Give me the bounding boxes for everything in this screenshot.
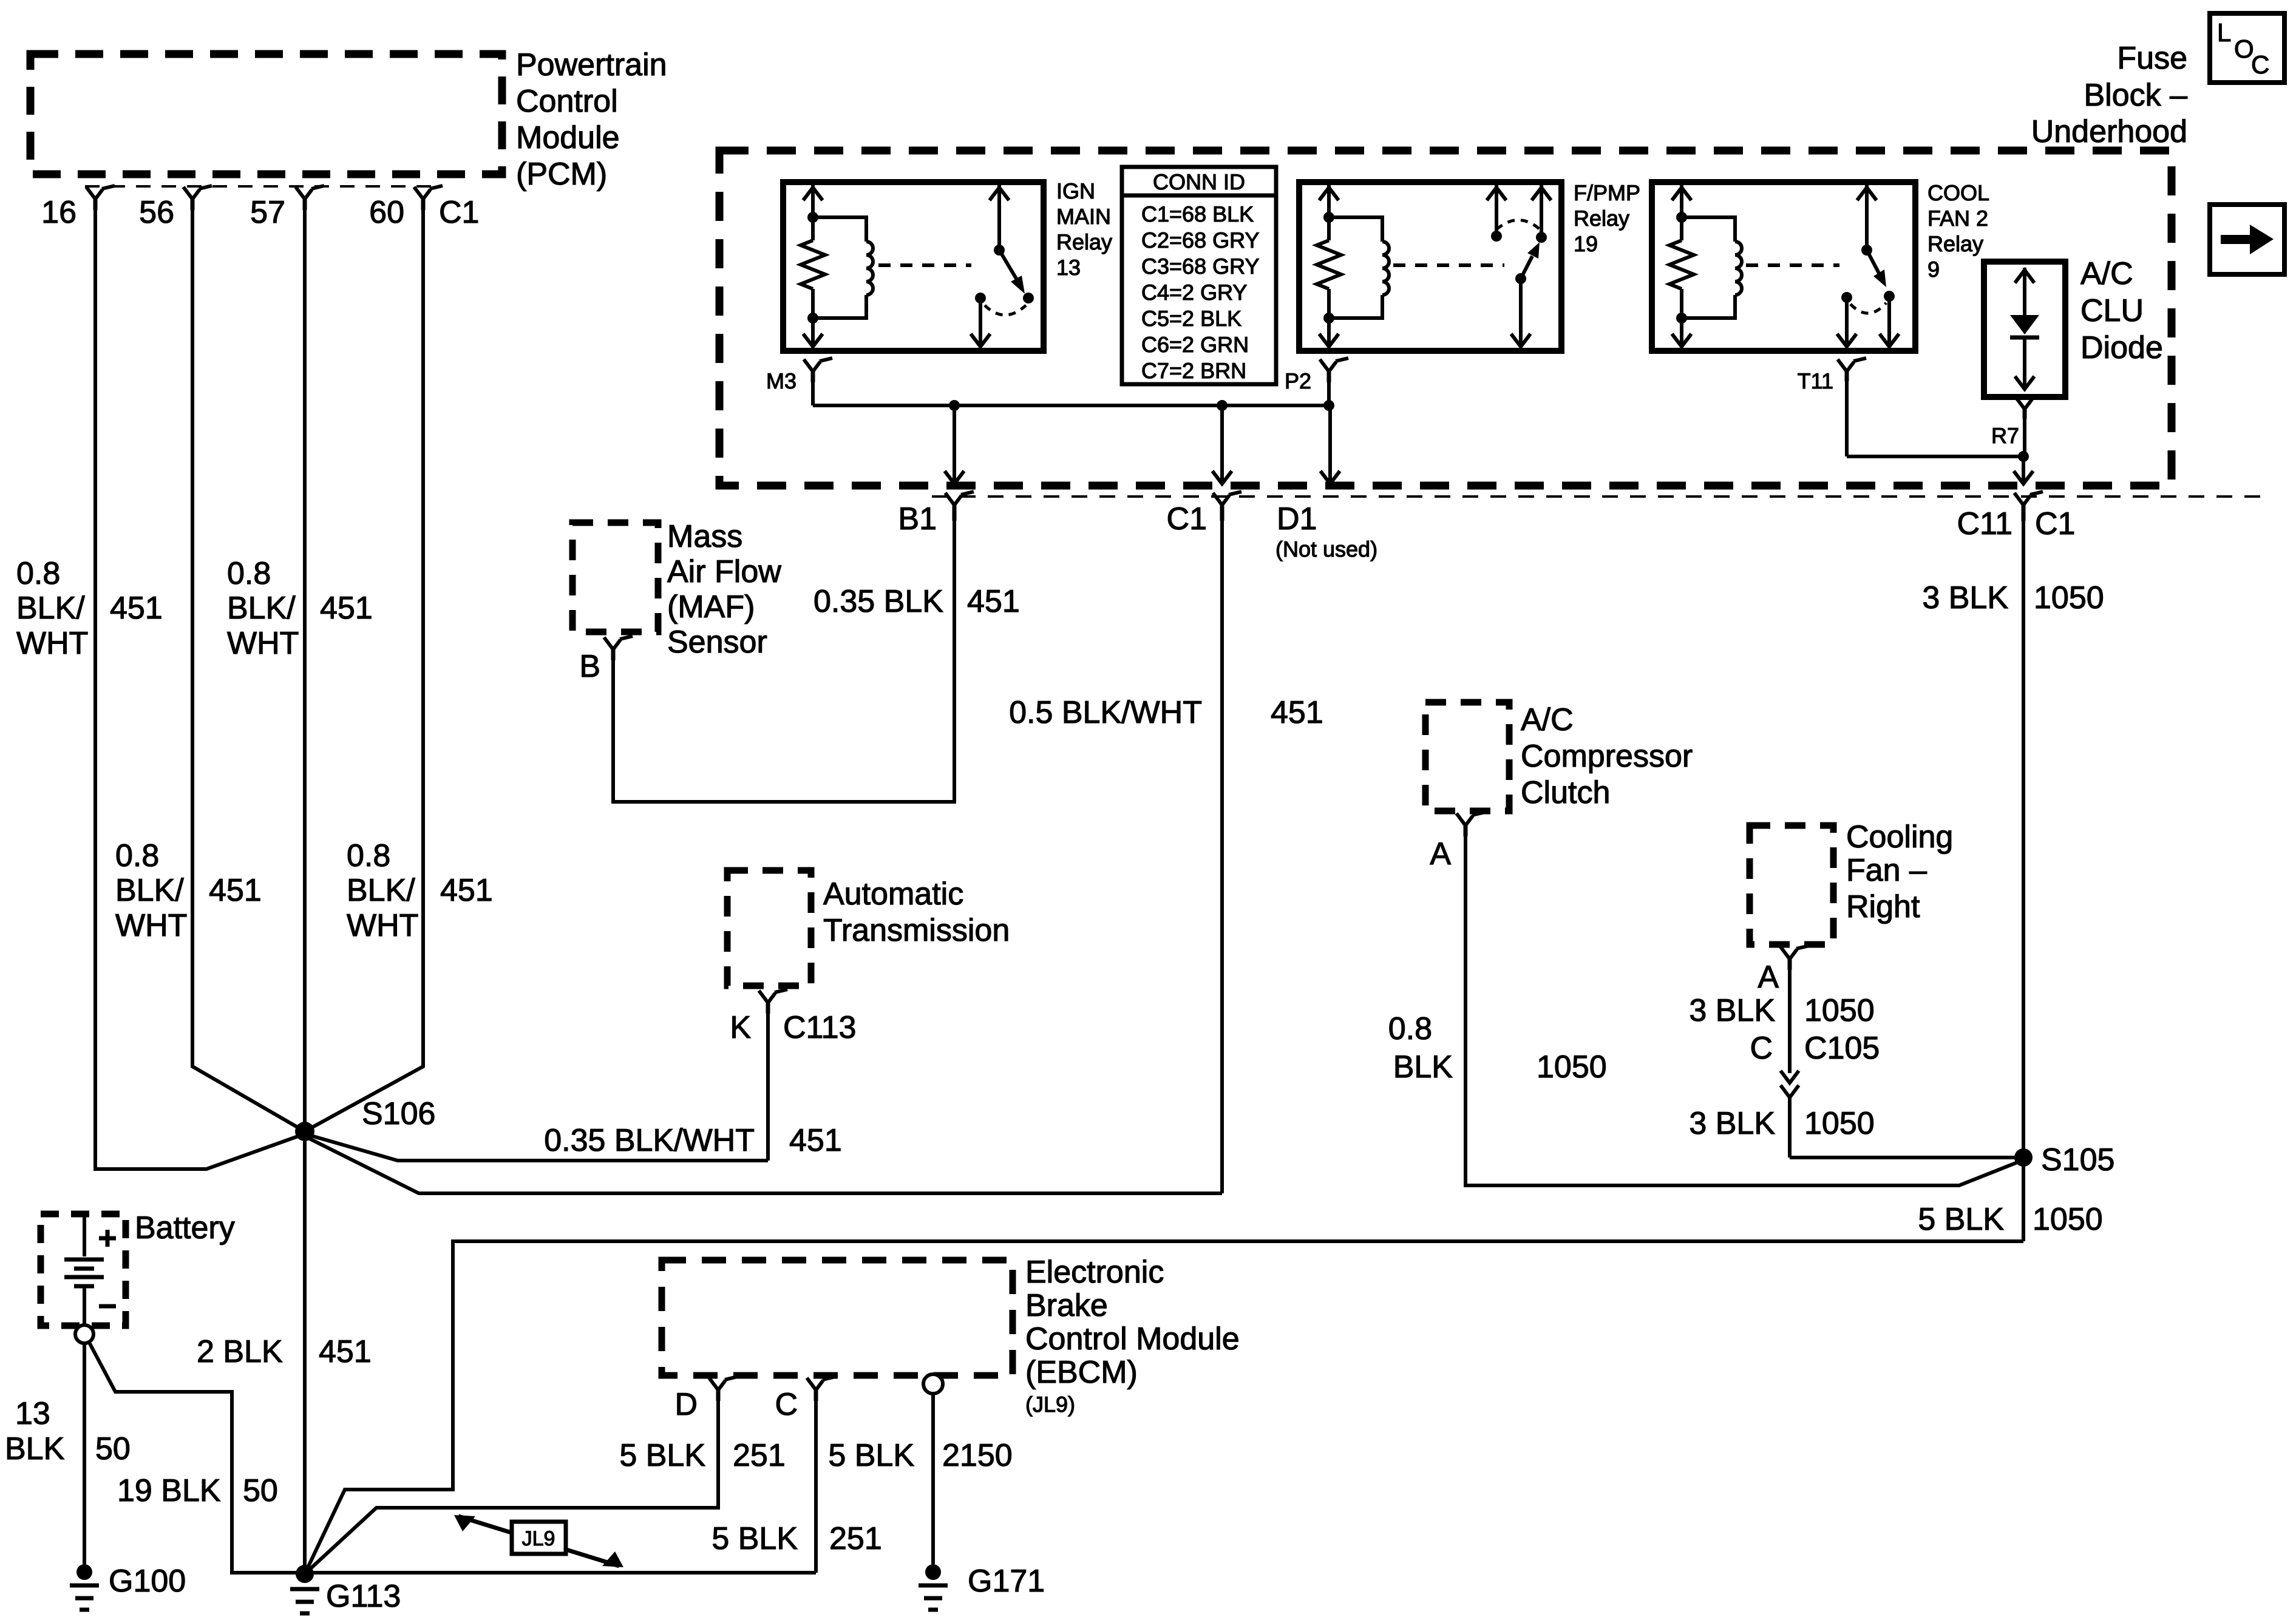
svg-text:Cooling: Cooling bbox=[1846, 819, 1953, 855]
svg-text:C1=68 BLK: C1=68 BLK bbox=[1141, 202, 1254, 226]
svg-text:Transmission: Transmission bbox=[823, 913, 1010, 948]
svg-text:Air Flow: Air Flow bbox=[667, 554, 781, 589]
svg-text:50: 50 bbox=[95, 1431, 131, 1466]
svg-text:Mass: Mass bbox=[667, 519, 742, 554]
svg-text:19: 19 bbox=[1574, 231, 1598, 256]
svg-text:C6=2 GRN: C6=2 GRN bbox=[1141, 332, 1249, 357]
svg-text:D: D bbox=[674, 1387, 698, 1422]
svg-text:0.8: 0.8 bbox=[16, 556, 60, 591]
svg-text:1050: 1050 bbox=[1804, 1106, 1875, 1141]
svg-text:Relay: Relay bbox=[1574, 206, 1629, 231]
svg-text:Control: Control bbox=[516, 84, 618, 119]
svg-text:2 BLK: 2 BLK bbox=[197, 1334, 283, 1369]
svg-text:BLK: BLK bbox=[5, 1431, 65, 1466]
svg-text:C3=68 GRY: C3=68 GRY bbox=[1141, 254, 1259, 279]
svg-text:WHT: WHT bbox=[347, 908, 418, 943]
svg-text:WHT: WHT bbox=[16, 626, 88, 661]
svg-text:MAIN: MAIN bbox=[1056, 204, 1111, 229]
svg-text:Relay: Relay bbox=[1927, 231, 1983, 256]
svg-text:1050: 1050 bbox=[2033, 1202, 2103, 1237]
svg-text:Fan –: Fan – bbox=[1846, 853, 1927, 888]
svg-text:Right: Right bbox=[1846, 889, 1920, 924]
svg-text:19 BLK: 19 BLK bbox=[117, 1473, 221, 1508]
svg-text:G113: G113 bbox=[326, 1579, 401, 1614]
svg-text:0.35 BLK/WHT: 0.35 BLK/WHT bbox=[544, 1123, 755, 1158]
svg-text:0.8: 0.8 bbox=[227, 556, 271, 591]
svg-text:BLK/: BLK/ bbox=[16, 591, 85, 626]
svg-text:M3: M3 bbox=[766, 368, 796, 393]
svg-text:BLK/: BLK/ bbox=[227, 591, 296, 626]
svg-text:451: 451 bbox=[440, 873, 493, 908]
svg-text:5 BLK: 5 BLK bbox=[828, 1438, 914, 1473]
svg-text:G100: G100 bbox=[109, 1564, 186, 1599]
svg-text:C: C bbox=[775, 1387, 798, 1422]
svg-text:0.8: 0.8 bbox=[347, 838, 390, 873]
svg-text:451: 451 bbox=[319, 1334, 372, 1369]
svg-text:Electronic: Electronic bbox=[1025, 1255, 1164, 1290]
svg-text:P2: P2 bbox=[1285, 368, 1311, 393]
svg-text:R7: R7 bbox=[1991, 423, 2019, 448]
svg-text:C: C bbox=[2251, 50, 2269, 79]
svg-text:C1: C1 bbox=[1167, 501, 1207, 537]
svg-text:56: 56 bbox=[139, 195, 174, 230]
svg-text:B: B bbox=[579, 649, 600, 684]
svg-text:F/PMP: F/PMP bbox=[1574, 180, 1640, 205]
svg-text:451: 451 bbox=[110, 591, 163, 626]
svg-text:COOL: COOL bbox=[1927, 180, 1989, 205]
svg-text:B1: B1 bbox=[898, 501, 937, 537]
svg-text:1050: 1050 bbox=[1804, 993, 1875, 1028]
svg-text:0.35 BLK: 0.35 BLK bbox=[813, 584, 943, 619]
svg-text:K: K bbox=[730, 1010, 751, 1045]
svg-text:Automatic: Automatic bbox=[823, 876, 963, 912]
svg-text:13: 13 bbox=[15, 1396, 50, 1431]
svg-text:C1: C1 bbox=[439, 195, 479, 230]
svg-text:(MAF): (MAF) bbox=[667, 589, 755, 625]
svg-text:0.8: 0.8 bbox=[1388, 1011, 1432, 1046]
svg-text:T11: T11 bbox=[1798, 368, 1833, 393]
svg-text:Block –: Block – bbox=[2084, 78, 2187, 113]
svg-text:3 BLK: 3 BLK bbox=[1689, 1106, 1775, 1141]
svg-text:451: 451 bbox=[1271, 695, 1323, 730]
svg-text:Module: Module bbox=[516, 120, 620, 155]
svg-text:9: 9 bbox=[1927, 257, 1940, 282]
svg-text:5 BLK: 5 BLK bbox=[1918, 1202, 2004, 1237]
svg-text:Diode: Diode bbox=[2080, 330, 2163, 365]
svg-text:Clutch: Clutch bbox=[1521, 775, 1610, 810]
svg-text:JL9: JL9 bbox=[522, 1527, 555, 1550]
svg-text:D1: D1 bbox=[1277, 501, 1317, 537]
svg-text:451: 451 bbox=[967, 584, 1020, 619]
svg-text:(Not used): (Not used) bbox=[1275, 537, 1377, 561]
svg-text:FAN 2: FAN 2 bbox=[1927, 206, 1988, 231]
svg-text:(EBCM): (EBCM) bbox=[1025, 1355, 1138, 1390]
svg-text:A: A bbox=[1430, 836, 1451, 872]
svg-text:2150: 2150 bbox=[942, 1438, 1013, 1473]
svg-text:C4=2 GRY: C4=2 GRY bbox=[1141, 280, 1247, 305]
svg-text:251: 251 bbox=[733, 1438, 786, 1473]
svg-text:57: 57 bbox=[250, 195, 285, 230]
svg-text:CONN ID: CONN ID bbox=[1153, 169, 1245, 194]
svg-text:3 BLK: 3 BLK bbox=[1689, 993, 1775, 1028]
svg-text:3 BLK: 3 BLK bbox=[1922, 580, 2008, 615]
svg-text:5 BLK: 5 BLK bbox=[619, 1438, 705, 1473]
svg-text:13: 13 bbox=[1056, 255, 1081, 280]
svg-text:Brake: Brake bbox=[1025, 1288, 1108, 1323]
svg-text:C5=2 BLK: C5=2 BLK bbox=[1141, 306, 1241, 331]
svg-text:BLK: BLK bbox=[1393, 1049, 1453, 1085]
svg-text:451: 451 bbox=[209, 873, 262, 908]
svg-text:WHT: WHT bbox=[227, 626, 299, 661]
svg-text:L: L bbox=[2217, 18, 2231, 47]
svg-text:451: 451 bbox=[789, 1123, 842, 1158]
svg-text:BLK/: BLK/ bbox=[347, 873, 415, 908]
svg-text:5 BLK: 5 BLK bbox=[712, 1521, 798, 1556]
svg-text:(JL9): (JL9) bbox=[1025, 1392, 1075, 1417]
svg-text:1050: 1050 bbox=[1537, 1049, 1607, 1085]
svg-text:C: C bbox=[1750, 1031, 1773, 1066]
svg-text:Relay: Relay bbox=[1056, 229, 1112, 254]
svg-text:Underhood: Underhood bbox=[2031, 114, 2187, 149]
svg-text:BLK/: BLK/ bbox=[115, 873, 184, 908]
svg-text:Compressor: Compressor bbox=[1521, 739, 1693, 774]
svg-text:C1: C1 bbox=[2035, 506, 2075, 541]
svg-text:C7=2 BRN: C7=2 BRN bbox=[1141, 358, 1246, 383]
svg-text:251: 251 bbox=[829, 1521, 882, 1556]
svg-text:Powertrain: Powertrain bbox=[516, 47, 667, 83]
svg-text:S105: S105 bbox=[2041, 1142, 2114, 1178]
svg-text:60: 60 bbox=[369, 195, 404, 230]
svg-text:A/C: A/C bbox=[2080, 256, 2133, 291]
svg-text:16: 16 bbox=[41, 195, 76, 230]
svg-text:CLU: CLU bbox=[2080, 293, 2144, 328]
svg-text:C105: C105 bbox=[1804, 1031, 1880, 1066]
svg-text:Control Module: Control Module bbox=[1025, 1321, 1240, 1357]
svg-text:IGN: IGN bbox=[1056, 178, 1095, 203]
svg-text:Sensor: Sensor bbox=[667, 625, 767, 660]
svg-text:S106: S106 bbox=[362, 1096, 435, 1131]
svg-text:(PCM): (PCM) bbox=[516, 157, 607, 192]
svg-text:C113: C113 bbox=[783, 1010, 856, 1045]
svg-text:A: A bbox=[1758, 960, 1779, 995]
svg-text:0.8: 0.8 bbox=[115, 838, 159, 873]
svg-text:C2=68 GRY: C2=68 GRY bbox=[1141, 228, 1259, 253]
svg-text:A/C: A/C bbox=[1521, 702, 1574, 737]
svg-text:C11: C11 bbox=[1957, 506, 2012, 541]
svg-text:G171: G171 bbox=[968, 1564, 1045, 1599]
svg-text:Battery: Battery bbox=[135, 1210, 235, 1246]
svg-text:1050: 1050 bbox=[2034, 580, 2104, 615]
svg-text:0.5 BLK/WHT: 0.5 BLK/WHT bbox=[1009, 695, 1202, 730]
svg-text:Fuse: Fuse bbox=[2117, 41, 2187, 76]
svg-text:WHT: WHT bbox=[115, 908, 187, 943]
svg-text:451: 451 bbox=[320, 591, 373, 626]
svg-text:50: 50 bbox=[243, 1473, 278, 1508]
